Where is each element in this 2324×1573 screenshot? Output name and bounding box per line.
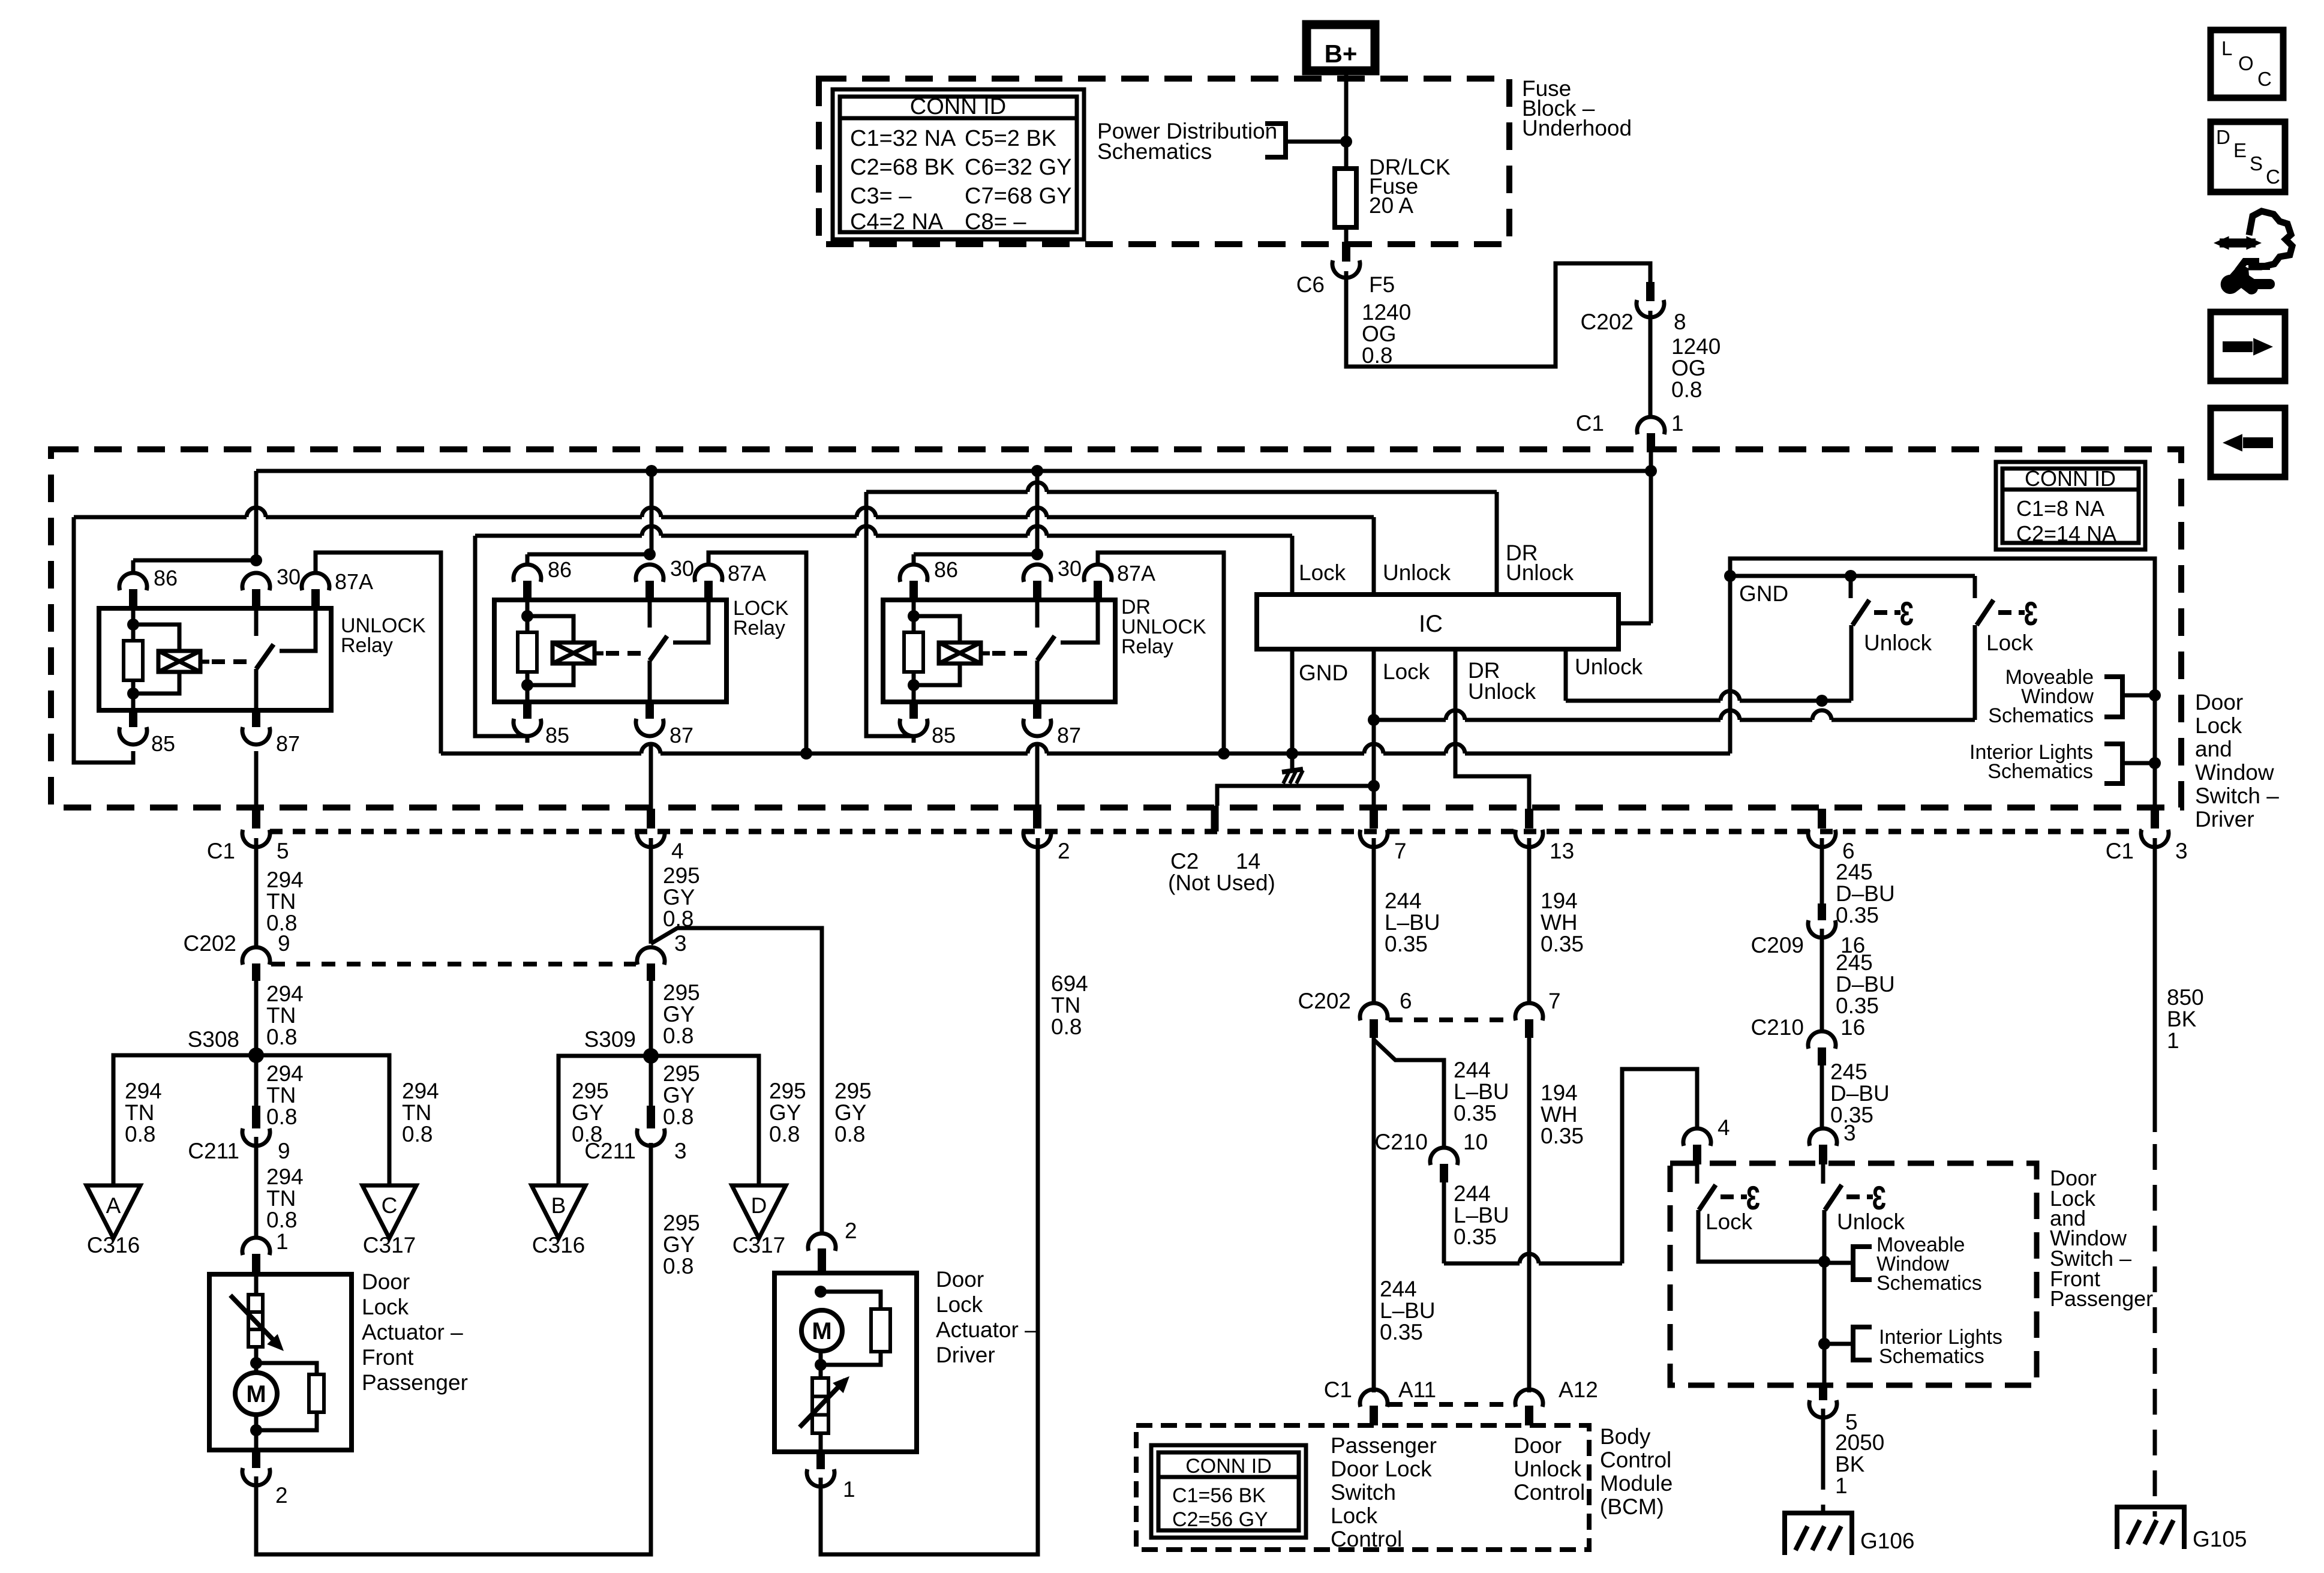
svg-text:Lock: Lock [1986, 631, 2034, 655]
wire S309 branch to triangle B [559, 1056, 651, 1185]
svg-text:87A: 87A [728, 561, 766, 586]
node lock line [1368, 714, 1380, 726]
triangle B [532, 1185, 585, 1238]
connector pin 6 [1818, 809, 1826, 828]
connector C210 pin 10 [1430, 1148, 1458, 1165]
svg-text:0.8: 0.8 [834, 1122, 865, 1146]
svg-text:C202: C202 [1298, 989, 1351, 1013]
svg-text:0.35: 0.35 [1454, 1224, 1497, 1249]
svg-text:L–BU: L–BU [1454, 1203, 1509, 1227]
connector C1 pin 3 [2151, 809, 2159, 828]
svg-text:Driver: Driver [2195, 807, 2254, 831]
svg-text:14: 14 [1236, 849, 1260, 873]
svg-text:Actuator –: Actuator – [362, 1320, 463, 1344]
lock relay actuation dashed link [606, 651, 647, 656]
svg-text:850: 850 [2167, 985, 2204, 1010]
connector C210 pin 16 [1808, 1031, 1836, 1049]
svg-text:3: 3 [1900, 595, 1914, 632]
svg-text:1: 1 [1835, 1473, 1848, 1498]
svg-text:C3= –: C3= – [850, 184, 912, 209]
svg-text:Unlock: Unlock [1383, 560, 1451, 585]
svg-text:GY: GY [663, 885, 695, 909]
svg-text:6: 6 [1400, 989, 1412, 1013]
svg-text:30: 30 [670, 556, 694, 581]
dr unlock relay coil branch nodes [908, 610, 920, 622]
svg-text:Lock: Lock [936, 1292, 983, 1317]
svg-text:TN: TN [402, 1100, 431, 1125]
node line1 relay2 [645, 465, 657, 477]
svg-text:A11: A11 [1398, 1377, 1436, 1402]
svg-text:C202: C202 [184, 931, 236, 956]
unlock relay pin 30 connector [242, 573, 270, 590]
svg-text:4: 4 [671, 839, 684, 863]
node relay2 86-30 [644, 548, 656, 560]
wire 244 L-BU split below C202-6 [1372, 1038, 1376, 1392]
svg-text:L: L [2221, 37, 2232, 59]
svg-text:(Not Used): (Not Used) [1168, 870, 1275, 895]
svg-text:1: 1 [2167, 1028, 2179, 1053]
svg-text:C2: C2 [1170, 849, 1199, 873]
wire switch common down [1822, 1262, 1827, 1385]
svg-text:TN: TN [266, 889, 296, 914]
svg-text:C211: C211 [584, 1139, 636, 1163]
splice S309 [643, 1048, 659, 1064]
svg-text:C1=8 NA: C1=8 NA [2016, 496, 2104, 521]
svg-text:0.35: 0.35 [1541, 1124, 1584, 1148]
triangle D [732, 1185, 786, 1238]
connector C211 pin 9 [252, 1106, 260, 1128]
wire S308 branch to triangle A [113, 1055, 256, 1185]
node relay2 87A ground bus [800, 748, 812, 760]
svg-text:C2=56 GY: C2=56 GY [1172, 1508, 1268, 1531]
svg-text:GY: GY [663, 1002, 695, 1026]
wire fuse to C6 [1344, 227, 1349, 242]
gnd net driver switch assembly [1730, 559, 2155, 807]
connector pin 2 [1033, 809, 1041, 828]
wire 1240 OG 0.8 1 to C1 [1649, 311, 1653, 418]
wire 244 L-BU 0.35 below C210-10 [1442, 1182, 1446, 1263]
svg-text:Passenger: Passenger [2050, 1286, 2153, 1311]
svg-text:Actuator –: Actuator – [936, 1317, 1037, 1342]
svg-text:87: 87 [669, 723, 693, 748]
svg-text:Lock: Lock [1706, 1209, 1753, 1234]
wire 194 WH 0.35 from connector 13 [1527, 838, 1532, 1005]
svg-text:Door: Door [936, 1267, 984, 1292]
variable resistor driver actuator [812, 1378, 828, 1433]
svg-text:Relay: Relay [733, 617, 785, 640]
svg-text:M: M [812, 1318, 831, 1344]
lock relay pin 30 connector [636, 565, 663, 582]
wire S309 to C211-3 [649, 1056, 653, 1106]
unlock relay switch movable arm [256, 644, 274, 669]
connector face dotted line [270, 829, 2142, 834]
svg-text:and: and [2195, 737, 2232, 761]
svg-text:2: 2 [275, 1483, 288, 1508]
lock relay coil winding [527, 616, 574, 643]
svg-text:C1: C1 [207, 839, 235, 863]
svg-text:TN: TN [1051, 993, 1080, 1017]
svg-text:2: 2 [1058, 839, 1070, 863]
svg-text:295: 295 [663, 863, 700, 888]
svg-text:295: 295 [834, 1079, 872, 1103]
fuse DR/LCK 20 A [1335, 169, 1356, 227]
svg-text:0.8: 0.8 [402, 1122, 433, 1146]
svg-text:295: 295 [663, 1061, 700, 1086]
svg-text:30: 30 [1058, 556, 1082, 581]
passenger lock switch lower wire [1698, 1210, 1823, 1262]
passenger lock switch [1695, 1164, 1700, 1184]
svg-text:8: 8 [1674, 310, 1686, 334]
unlock relay actuation dashed link [212, 659, 253, 664]
svg-text:0.8: 0.8 [663, 1023, 693, 1048]
svg-text:0.35: 0.35 [1380, 1320, 1423, 1344]
icon LOC box [2211, 30, 2283, 98]
unlock relay pin 86 connector [119, 573, 147, 590]
svg-text:0.35: 0.35 [1541, 932, 1584, 956]
svg-text:Lock: Lock [2195, 713, 2242, 738]
svg-text:294: 294 [266, 1061, 304, 1086]
door lock actuator front passenger box [209, 1274, 352, 1450]
ground bus wire [441, 752, 641, 756]
wire relay1 87A to ground bus [316, 553, 441, 754]
bus line3 IC lock to relay2 coil [475, 534, 642, 538]
svg-text:16: 16 [1840, 1015, 1865, 1040]
svg-text:0.8: 0.8 [1362, 343, 1392, 368]
node moveable window tap [2149, 689, 2161, 701]
svg-text:0.8: 0.8 [663, 1104, 693, 1129]
connector C202 pin 8 [1646, 282, 1655, 301]
lock relay coil branch nodes [521, 610, 533, 622]
wire S309 branch to triangle D [651, 1056, 759, 1185]
svg-text:Relay: Relay [1121, 635, 1173, 658]
wire C1 down to IC node [1649, 452, 1653, 623]
svg-text:C5=2 BK: C5=2 BK [965, 126, 1056, 151]
node relay1 86-30 [250, 554, 262, 566]
passenger unlock switch lower wire [1822, 1210, 1827, 1262]
svg-text:295: 295 [663, 980, 700, 1005]
svg-text:0.35: 0.35 [1454, 1101, 1497, 1125]
svg-text:CONN ID: CONN ID [2025, 466, 2116, 491]
svg-text:Lock: Lock [362, 1295, 409, 1319]
svg-text:GY: GY [834, 1100, 866, 1125]
svg-text:C: C [2257, 68, 2272, 90]
svg-text:294: 294 [266, 981, 304, 1006]
svg-text:C316: C316 [87, 1233, 140, 1257]
svg-text:87A: 87A [1117, 561, 1155, 586]
CONN ID table BCM [1151, 1445, 1306, 1538]
ground G106 [1785, 1513, 1852, 1555]
wire S308 branch to triangle C [256, 1055, 389, 1185]
connector C6 of fuse block [1342, 242, 1350, 262]
svg-text:245: 245 [1836, 950, 1873, 975]
svg-text:C2=14 NA: C2=14 NA [2016, 521, 2116, 546]
svg-text:0.8: 0.8 [1671, 377, 1702, 402]
connector actuator passenger pin 2 [252, 1450, 260, 1468]
lock relay body [494, 600, 726, 702]
svg-text:Door Lock: Door Lock [1331, 1457, 1432, 1481]
connector C202 pin 6 [1360, 1003, 1388, 1020]
svg-text:1: 1 [1671, 411, 1684, 436]
svg-text:295: 295 [572, 1079, 609, 1103]
svg-text:245: 245 [1836, 860, 1873, 884]
svg-text:C210: C210 [1375, 1130, 1428, 1154]
wire relay2 87A to ground bus [708, 553, 806, 754]
svg-text:Relay: Relay [341, 634, 393, 657]
svg-text:1: 1 [276, 1229, 289, 1254]
wire relay1 87 to connector C1-5 [254, 751, 259, 809]
unlock relay contact 87A branch [280, 608, 316, 651]
svg-text:TN: TN [266, 1186, 296, 1211]
svg-text:M: M [246, 1381, 266, 1407]
svg-text:244: 244 [1380, 1277, 1417, 1301]
unlock relay pin 87A connector [302, 573, 329, 590]
fuse block underhood dashed box [819, 79, 1509, 244]
variable resistor passenger actuator [254, 1274, 259, 1295]
wire 244 L-BU to switch pin 4 [1444, 1262, 1520, 1266]
svg-text:C317: C317 [363, 1233, 416, 1257]
node unlock line to pin6 wire [1816, 695, 1828, 707]
svg-text:Underhood: Underhood [1522, 116, 1632, 140]
svg-text:Lock: Lock [1383, 659, 1430, 684]
svg-text:GND: GND [1299, 661, 1348, 685]
bracket interior lights schematics driver [2104, 744, 2122, 784]
svg-text:C1=56 BK: C1=56 BK [1172, 1484, 1266, 1507]
dr unlock relay pin 87 connector [1033, 702, 1041, 719]
connector switch pin 4 [1683, 1128, 1711, 1146]
svg-text:Unlock: Unlock [1514, 1457, 1582, 1481]
svg-text:C211: C211 [188, 1139, 239, 1163]
svg-text:L–BU: L–BU [1380, 1298, 1436, 1323]
svg-text:OG: OG [1362, 322, 1397, 346]
svg-text:Door: Door [362, 1269, 410, 1294]
connector A11 [1360, 1389, 1388, 1407]
svg-text:C6=32 GY: C6=32 GY [965, 155, 1072, 180]
svg-text:294: 294 [266, 1164, 304, 1189]
connector C1 pin 5 [252, 809, 260, 828]
svg-text:694: 694 [1051, 971, 1088, 996]
svg-text:IC: IC [1419, 611, 1443, 637]
svg-text:GY: GY [572, 1100, 603, 1125]
node interior lights tap [2149, 757, 2161, 769]
svg-text:87: 87 [1057, 723, 1081, 748]
svg-text:3: 3 [674, 931, 687, 956]
svg-text:Schematics: Schematics [1987, 760, 2093, 783]
svg-text:D: D [751, 1193, 767, 1218]
dr unlock relay pin 30 connector [1023, 565, 1051, 582]
splice S308 [248, 1047, 264, 1063]
svg-text:Body: Body [1600, 1424, 1651, 1449]
svg-text:Unlock: Unlock [1837, 1209, 1905, 1234]
C202 dashed connector line left [271, 962, 636, 966]
svg-text:9: 9 [278, 1139, 290, 1163]
svg-text:E: E [2233, 139, 2247, 161]
dr unlock relay contact 87A branch [1061, 600, 1098, 643]
wire 294 TN 0.8 1 to actuator [254, 1137, 259, 1239]
CONN ID table switch assembly [1996, 462, 2145, 550]
wire IC lock output to connector 7 [1372, 649, 1376, 809]
svg-text:D: D [2216, 126, 2230, 148]
connector C202 pin 3 [637, 947, 665, 965]
resistor parallel passenger [256, 1363, 317, 1374]
node line1 relay3 [1031, 465, 1043, 477]
svg-text:Door: Door [2195, 690, 2243, 715]
wire S308 to C211 [254, 1055, 259, 1106]
svg-text:G105: G105 [2193, 1527, 2247, 1551]
unlock relay coil resistor [131, 608, 136, 641]
CONN ID table fuse block [833, 89, 1084, 239]
svg-text:10: 10 [1463, 1130, 1488, 1154]
wire 850 BK 1 from C1-3 [2153, 838, 2157, 1132]
lock relay pin 85 connector [523, 702, 532, 719]
svg-text:S308: S308 [188, 1027, 239, 1052]
wire 194 WH 0.35 to A12 [1527, 1038, 1532, 1392]
svg-text:GY: GY [663, 1232, 695, 1257]
svg-text:C317: C317 [732, 1233, 785, 1257]
svg-text:0.8: 0.8 [266, 1025, 297, 1049]
bracket moveable window schematics passenger [1853, 1247, 1872, 1280]
node actuator bottom [250, 1424, 262, 1436]
wire IC unlock output to driver unlock switch [1564, 649, 1568, 701]
svg-text:1240: 1240 [1671, 334, 1721, 359]
dr unlock relay coil resistor [912, 600, 916, 632]
svg-text:C202: C202 [1581, 310, 1634, 334]
svg-text:2050: 2050 [1835, 1430, 1884, 1455]
battery feed B+ [1307, 25, 1375, 71]
svg-text:CONN ID: CONN ID [910, 94, 1006, 119]
node relay3 86-30 [1031, 548, 1043, 560]
wire 245 D-BU to switch pin 3 [1820, 1065, 1824, 1130]
icon DESC box [2211, 122, 2285, 192]
wire 295 GY 0.8 to S309 [649, 981, 653, 1056]
svg-text:2: 2 [845, 1218, 857, 1243]
svg-text:0.8: 0.8 [663, 1254, 693, 1278]
icon forward arrow box [2211, 312, 2285, 381]
wire B+ to fuse [1344, 71, 1349, 169]
svg-text:Passenger: Passenger [362, 1370, 468, 1395]
connector C202 pin 9 [242, 947, 270, 965]
connector actuator driver pin 2 [808, 1233, 836, 1251]
svg-text:C2=68 BK: C2=68 BK [850, 155, 954, 180]
svg-text:C1=32 NA: C1=32 NA [850, 126, 956, 151]
ground G105 [2117, 1507, 2184, 1549]
motor M passenger [235, 1373, 277, 1415]
svg-text:TN: TN [125, 1100, 154, 1125]
door lock actuator driver box [774, 1273, 917, 1452]
icon back arrow box [2211, 408, 2285, 477]
svg-text:D–BU: D–BU [1836, 881, 1895, 906]
icon repair hand with wrench [2248, 211, 2292, 267]
driver unlock switch [1849, 576, 1853, 598]
dr unlock relay actuation dashed link [992, 651, 1034, 656]
lock relay pin 86 connector [514, 565, 541, 582]
motor M driver [801, 1310, 842, 1351]
node C2-14 link [1368, 780, 1380, 792]
svg-text:7: 7 [1394, 839, 1407, 863]
unlock relay pin 87 connector [252, 710, 260, 727]
svg-text:F5: F5 [1369, 272, 1395, 297]
wire relay3 85 coil return to line4 [866, 492, 914, 743]
svg-text:7: 7 [1548, 989, 1561, 1013]
svg-text:Window: Window [2195, 760, 2274, 785]
svg-text:C6: C6 [1296, 272, 1325, 297]
svg-text:O: O [2238, 52, 2254, 74]
svg-text:0.35: 0.35 [1836, 903, 1879, 927]
connector C1 into switch assembly [1637, 417, 1665, 434]
svg-text:294: 294 [125, 1079, 162, 1103]
unlock relay switch common pin30 [254, 608, 259, 636]
svg-text:L–BU: L–BU [1385, 910, 1440, 935]
svg-text:Control: Control [1331, 1527, 1402, 1551]
wire 1240 OG 0.8 from C6 [1346, 263, 1650, 367]
wrench [2221, 264, 2258, 295]
svg-text:3: 3 [674, 1139, 687, 1163]
connector pin 7 [1370, 809, 1378, 828]
svg-text:C1: C1 [1576, 411, 1604, 436]
node line1 / C1 feed [1645, 465, 1657, 477]
svg-text:C: C [382, 1193, 398, 1218]
svg-text:B: B [551, 1193, 566, 1218]
svg-text:Door: Door [1514, 1433, 1562, 1458]
svg-text:Schematics: Schematics [1097, 139, 1212, 164]
svg-text:20 A: 20 A [1369, 193, 1413, 218]
wire C2-14 not used stub [1217, 786, 1374, 806]
wire actuator pin2 to C211-3 [256, 1143, 651, 1554]
unlock relay pin 85 connector [129, 710, 137, 727]
ground chassis symbol [1282, 769, 1303, 772]
svg-text:Schematics: Schematics [1879, 1345, 1984, 1368]
svg-text:TN: TN [266, 1003, 296, 1028]
svg-text:85: 85 [545, 723, 569, 748]
svg-text:0.8: 0.8 [266, 1208, 297, 1232]
connector C209 pin 16 [1818, 903, 1826, 920]
node relay3 87A ground bus [1218, 748, 1230, 760]
wire relay1 86 link [133, 559, 256, 563]
wire IC GND pin to ground [1290, 649, 1295, 770]
wire IC dr-unlock output to connector 13 [1455, 649, 1529, 809]
door lock and window switch front passenger dashed box [1670, 1163, 2037, 1385]
svg-text:85: 85 [151, 731, 175, 756]
wire 245 D-BU between C209 and C210 [1820, 929, 1824, 1032]
svg-text:0.8: 0.8 [266, 1104, 297, 1129]
svg-text:244: 244 [1385, 888, 1422, 913]
connector actuator driver pin 1 [816, 1452, 825, 1469]
passenger unlock switch [1821, 1164, 1825, 1184]
svg-text:86: 86 [548, 557, 572, 582]
svg-text:Unlock: Unlock [1864, 631, 1932, 655]
wire relay1 85 ground loop [74, 517, 133, 763]
svg-text:0.35: 0.35 [1385, 932, 1428, 956]
bus line4 IC dr-unlock to relay3 coil [866, 490, 1028, 494]
wire line1 drop to relay2 pin30 [650, 471, 654, 556]
svg-text:D–BU: D–BU [1836, 972, 1895, 996]
svg-text:BK: BK [1835, 1452, 1865, 1476]
wire relay2 87 to connector 4 [649, 743, 653, 809]
svg-text:194: 194 [1541, 888, 1578, 913]
wire actuator driver pin1 to connector 2 [821, 838, 1038, 1554]
svg-text:Lock: Lock [1331, 1503, 1378, 1528]
svg-text:Lock: Lock [1299, 560, 1346, 585]
svg-text:C1: C1 [1324, 1377, 1352, 1402]
svg-text:WH: WH [1541, 910, 1578, 935]
svg-text:30: 30 [277, 565, 301, 589]
svg-text:Passenger: Passenger [1331, 1433, 1437, 1458]
svg-text:Unlock: Unlock [1575, 655, 1643, 679]
node IC gnd on ground bus [1286, 748, 1298, 760]
svg-text:(BCM): (BCM) [1600, 1494, 1664, 1519]
dr unlock relay pin 85 connector [909, 702, 918, 719]
node driver actuator top [815, 1286, 827, 1298]
node actuator top [250, 1357, 262, 1369]
